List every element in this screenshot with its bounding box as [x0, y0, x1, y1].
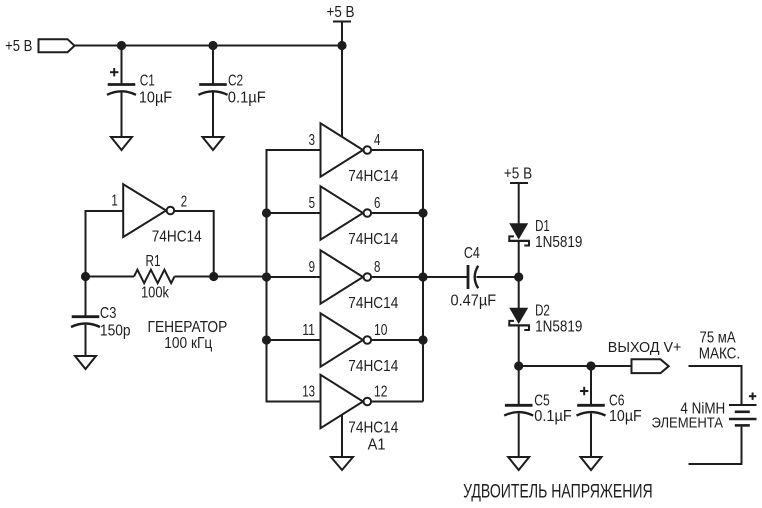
ground C2: [203, 137, 224, 150]
wire +5V center vertical: [341, 22, 343, 137]
wire C1 to ground: [121, 93, 123, 138]
wire row2 output: [371, 212, 423, 214]
node junction outbus row2: [418, 208, 427, 217]
svg-text:ЭЛЕМЕНТА: ЭЛЕМЕНТА: [652, 415, 724, 432]
capacitor C3: [71, 317, 100, 327]
node junction feedback left: [81, 272, 90, 281]
op-amp U1F inverter pins 13-12: [321, 375, 372, 429]
wire battery top: [689, 366, 742, 404]
svg-text:8: 8: [374, 259, 380, 276]
op-amp U1B inverter pins 3-4: [321, 123, 372, 177]
svg-text:C1: C1: [140, 73, 155, 90]
capacitor C4: [468, 265, 478, 289]
op-amp U1D inverter pins 9-8: [321, 250, 372, 304]
wire D1 to D2: [518, 241, 520, 308]
svg-text:9: 9: [309, 259, 315, 276]
wire right output bus: [422, 150, 424, 402]
wire R1 to bus: [175, 276, 267, 278]
wire row4 output: [371, 339, 423, 341]
node junction C4 diodes: [514, 272, 523, 281]
svg-text:74HC14: 74HC14: [348, 231, 398, 248]
svg-text:100k: 100k: [141, 285, 170, 302]
svg-text:74HC14: 74HC14: [348, 358, 398, 375]
svg-text:74HC14: 74HC14: [348, 168, 398, 185]
svg-text:13: 13: [302, 384, 315, 401]
node junction C2 rail: [208, 41, 217, 50]
capacitor C2: [199, 85, 228, 95]
wire C2 to ground: [212, 93, 214, 138]
power +5V bar right: [510, 182, 528, 184]
capacitor C1: [107, 68, 136, 95]
node junction bus row4: [262, 335, 271, 344]
ground IC A1: [331, 457, 353, 470]
node junction oscillator output: [209, 272, 218, 281]
wire top rail: [75, 45, 343, 47]
svg-text:+5 В: +5 В: [327, 4, 355, 21]
svg-text:10µF: 10µF: [609, 408, 642, 425]
svg-text:12: 12: [374, 384, 387, 401]
wire C3 to ground: [85, 325, 87, 357]
svg-text:1N5819: 1N5819: [535, 234, 582, 251]
svg-text:C5: C5: [534, 392, 550, 409]
svg-text:+5 В: +5 В: [5, 38, 32, 55]
wire battery bottom: [689, 427, 742, 464]
op-amp U1A inverter pins 1-2: [123, 184, 174, 237]
wire IC ground: [341, 415, 343, 458]
battery 4 NiMH: [729, 393, 757, 426]
svg-text:3: 3: [309, 132, 315, 149]
svg-text:ВЫХОД V+: ВЫХОД V+: [608, 339, 682, 356]
svg-text:2: 2: [181, 194, 187, 211]
wire output row: [519, 365, 632, 367]
ground C3: [75, 356, 96, 369]
svg-text:D1: D1: [535, 218, 550, 235]
svg-text:4: 4: [374, 132, 380, 149]
svg-text:C3: C3: [100, 305, 117, 322]
svg-text:6: 6: [374, 195, 380, 212]
node junction C5: [514, 361, 523, 370]
svg-text:0.47µF: 0.47µF: [451, 293, 497, 310]
svg-text:5: 5: [309, 195, 315, 212]
wire +5V to D1: [518, 183, 520, 224]
resistor R1: [134, 270, 175, 284]
node junction outbus row3: [418, 272, 427, 281]
input terminal +5V tag: [39, 39, 75, 52]
wire bus to C4: [423, 276, 468, 278]
capacitor C5: [504, 405, 533, 415]
wire R1 row: [86, 276, 135, 278]
svg-text:10µF: 10µF: [139, 90, 172, 107]
svg-text:+5 В: +5 В: [504, 165, 532, 182]
wire oscillator output: [175, 211, 214, 277]
svg-text:A1: A1: [368, 436, 386, 453]
svg-text:C2: C2: [228, 73, 243, 90]
svg-text:100 кГц: 100 кГц: [164, 335, 212, 352]
wire D2 to output row: [518, 325, 520, 366]
wire C6 to ground: [590, 413, 592, 457]
svg-text:75 мА: 75 мА: [700, 330, 736, 347]
svg-text:1: 1: [111, 193, 117, 210]
svg-text:150p: 150p: [100, 323, 131, 340]
svg-text:10: 10: [374, 322, 387, 339]
wire C6 drop: [590, 366, 592, 405]
wire C4 to diodes: [477, 276, 519, 278]
wire C2 drop: [212, 46, 214, 85]
wire row3 output: [371, 276, 423, 278]
node junction bus row3: [262, 272, 271, 281]
svg-text:C6: C6: [609, 392, 625, 409]
svg-text:74HC14: 74HC14: [152, 228, 202, 245]
wire row3 input: [267, 276, 321, 278]
op-amp U1C inverter pins 5-6: [321, 186, 372, 240]
svg-text:0.1µF: 0.1µF: [534, 408, 572, 425]
ground C1: [111, 137, 132, 150]
wire row5 output: [371, 401, 423, 403]
wire row1 output: [371, 149, 423, 151]
svg-text:УДВОИТЕЛЬ НАПРЯЖЕНИЯ: УДВОИТЕЛЬ НАПРЯЖЕНИЯ: [463, 482, 653, 503]
output terminal tag: [632, 359, 669, 373]
svg-text:1N5819: 1N5819: [535, 319, 582, 336]
svg-text:R1: R1: [146, 253, 161, 270]
node junction C6: [586, 361, 595, 370]
wire C1 drop: [121, 46, 123, 85]
diode D2 1N5819: [508, 308, 530, 330]
svg-text:74HC14: 74HC14: [348, 295, 398, 312]
wire left input bus: [267, 150, 321, 402]
svg-text:МАКС.: МАКС.: [699, 346, 741, 363]
wire C5 drop: [518, 366, 520, 405]
node junction +5V center: [337, 41, 346, 50]
node junction C1 rail: [117, 41, 126, 50]
svg-text:74HC14: 74HC14: [348, 419, 398, 436]
power +5V bar center: [333, 21, 351, 23]
ground C6: [581, 457, 602, 470]
svg-text:11: 11: [302, 322, 315, 339]
svg-text:0.1µF: 0.1µF: [228, 90, 266, 107]
capacitor C6: [577, 387, 606, 416]
wire C5 to ground: [518, 413, 520, 457]
svg-text:ГЕНЕРАТОР: ГЕНЕРАТОР: [148, 319, 228, 336]
wire row4 input: [267, 339, 321, 341]
ground C5: [508, 457, 529, 470]
wire row2 input: [267, 212, 321, 214]
wire oscillator input: [86, 211, 124, 317]
svg-text:C4: C4: [464, 245, 480, 262]
node junction outbus row4: [418, 335, 427, 344]
node junction bus row2: [262, 208, 271, 217]
op-amp U1E inverter pins 11-10: [321, 313, 372, 367]
diode D1 1N5819: [508, 223, 530, 245]
svg-text:D2: D2: [535, 303, 550, 320]
